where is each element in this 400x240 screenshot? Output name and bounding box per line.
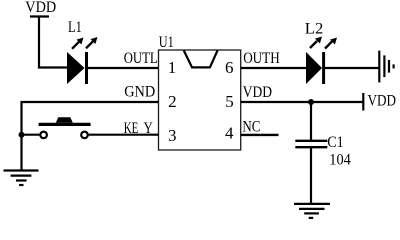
svg-text:GND: GND	[124, 84, 155, 101]
junction dot	[19, 132, 25, 138]
svg-text:1: 1	[168, 58, 177, 77]
capacitor C1	[295, 134, 351, 169]
wire switch right terminal to U1 pin 3 (KEY)	[89, 134, 159, 136]
wire L1 cathode to U1 pin 1	[88, 67, 159, 69]
svg-text:6: 6	[225, 58, 234, 77]
ground (right side, rotated)	[379, 51, 393, 83]
switch S1 (push button)	[39, 117, 91, 138]
svg-text:OUTL: OUTL	[124, 50, 158, 67]
wire C1 to bottom-right ground	[310, 148, 312, 204]
svg-text:VDD: VDD	[25, 0, 56, 16]
svg-text:OUTH: OUTH	[243, 50, 280, 67]
wire junction to switch left terminal	[22, 134, 40, 136]
ground (bottom-left)	[4, 171, 39, 186]
svg-text:NC: NC	[242, 119, 260, 136]
LED L2	[305, 21, 337, 85]
svg-text:104: 104	[329, 152, 351, 169]
wire junction down to C1	[310, 102, 312, 140]
ground (bottom-right)	[294, 204, 330, 218]
power VDD (right terminal)	[363, 93, 396, 111]
svg-text:3: 3	[168, 126, 177, 145]
wire U1 pin 6 to L2 anode	[241, 67, 306, 69]
wire VDD down and right to L1 anode	[39, 17, 67, 68]
svg-text:U1: U1	[159, 34, 174, 51]
power VDD (top-left)	[25, 0, 56, 17]
svg-text:VDD: VDD	[243, 84, 272, 101]
svg-text:L1: L1	[68, 19, 82, 36]
wire GND (pin 2) left and down to ground	[22, 102, 159, 170]
wire L2 cathode to right ground	[325, 67, 379, 69]
svg-text:L2: L2	[305, 21, 324, 38]
junction dot at C1 tap	[308, 99, 314, 105]
pin label KEY	[124, 120, 153, 137]
svg-text:VDD: VDD	[368, 93, 397, 110]
IC U1	[159, 34, 241, 150]
wire NC stub (pin 4, unconnected)	[241, 134, 279, 136]
svg-text:C1: C1	[327, 134, 344, 151]
svg-text:5: 5	[225, 92, 234, 111]
LED L1	[67, 19, 98, 84]
svg-text:2: 2	[168, 92, 177, 111]
wire U1 pin 5 (VDD) to right terminal	[241, 101, 363, 103]
svg-text:4: 4	[225, 124, 234, 143]
